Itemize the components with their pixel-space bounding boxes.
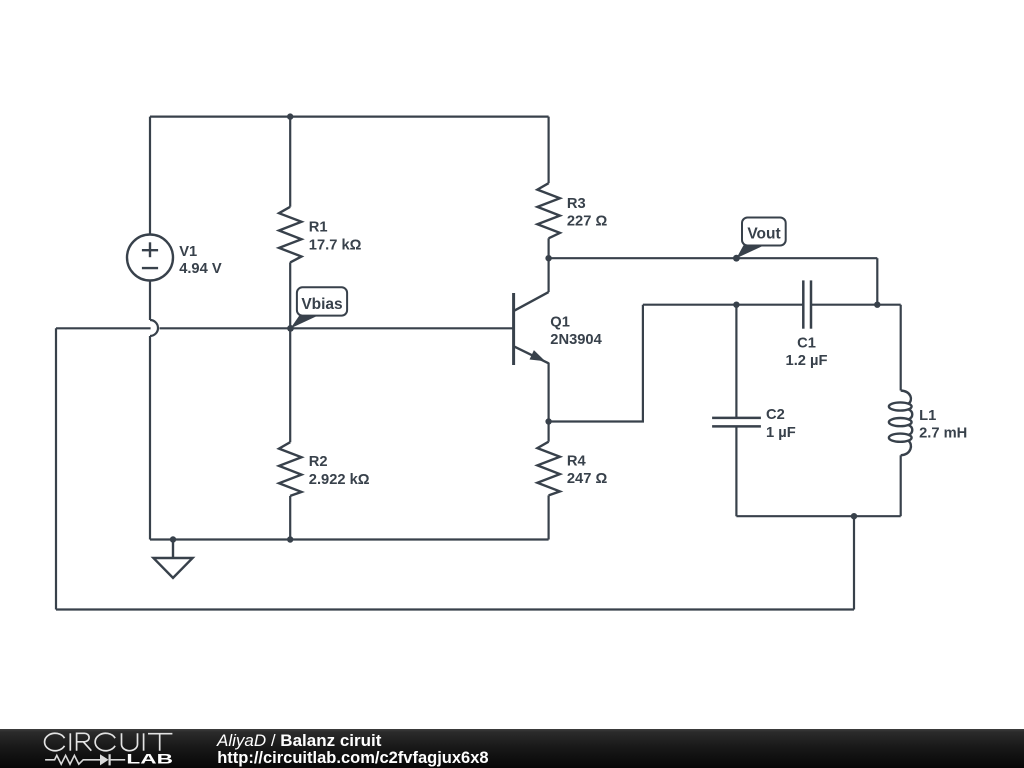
- resistor R1: [279, 207, 302, 263]
- capacitor C1: [803, 280, 811, 328]
- svg-text:R1: R1: [309, 220, 328, 236]
- svg-text:R2: R2: [309, 454, 328, 470]
- wire Q1 collector lead: [547, 258, 549, 292]
- inductor L1: [889, 391, 912, 456]
- svg-text:C2: C2: [766, 407, 785, 423]
- wire C2 top lead: [735, 305, 737, 418]
- wire feedback right riser: [853, 516, 855, 609]
- node R2 / bottom rail: [287, 536, 293, 542]
- wire R1 top lead: [289, 117, 291, 207]
- node ground tee: [170, 536, 176, 542]
- svg-text:1 µF: 1 µF: [766, 425, 796, 441]
- wire Vout rail drop to tank: [876, 258, 878, 305]
- wire R1 bottom lead: [289, 262, 291, 328]
- svg-text:2.7 mH: 2.7 mH: [919, 425, 967, 441]
- wire R3 top lead: [547, 117, 549, 184]
- svg-text:LAB: LAB: [126, 751, 173, 767]
- svg-text:1.2 µF: 1.2 µF: [786, 353, 828, 369]
- resistor R2: [279, 442, 302, 496]
- net label Vbias: [291, 287, 348, 328]
- svg-text:Vbias: Vbias: [301, 296, 342, 313]
- node emitter junction: [545, 418, 551, 424]
- node collector / Vout: [545, 255, 551, 261]
- capacitor C2: [712, 418, 761, 427]
- svg-text:4.94 V: 4.94 V: [179, 261, 222, 277]
- transistor Q1: [512, 293, 515, 365]
- svg-text:227 Ω: 227 Ω: [567, 214, 608, 230]
- wire tank loop top right segment: [811, 304, 901, 306]
- node Vout drop / tank top: [874, 302, 880, 308]
- svg-text:2N3904: 2N3904: [550, 332, 602, 348]
- logo diode symbol: [110, 759, 125, 761]
- wire tank loop right below L1: [900, 455, 902, 516]
- wire R4 top lead: [547, 422, 549, 442]
- wire tank loop top left segment: [643, 304, 803, 306]
- wire feedback left vertical: [55, 328, 57, 609]
- svg-text:R4: R4: [567, 453, 587, 469]
- resistor R3: [537, 183, 560, 238]
- wire top rail: [150, 115, 549, 117]
- svg-text:2.922 kΩ: 2.922 kΩ: [309, 472, 370, 488]
- node top rail / R1: [287, 113, 293, 119]
- wire Q1 emitter lead: [547, 363, 549, 422]
- wire emitter to tank riser: [549, 305, 643, 422]
- logo word CIRCUIT (drawn thin geometric glyphs): [45, 734, 173, 751]
- wire V1 bottom lead: [149, 281, 151, 321]
- footer url: [217, 750, 488, 767]
- wire Vbias rail left of hop: [56, 327, 151, 329]
- node tank bottom tee: [851, 513, 857, 519]
- wire C2 bottom lead: [735, 426, 737, 516]
- wire R2 bottom lead: [289, 496, 291, 540]
- wire Vbias rail to Q1 base: [160, 327, 514, 329]
- svg-text:17.7 kΩ: 17.7 kΩ: [309, 237, 362, 253]
- wire R4 bottom lead: [547, 495, 549, 539]
- svg-text:V1: V1: [179, 244, 197, 260]
- footer author / title: [217, 732, 381, 749]
- voltage source V1: [127, 235, 173, 281]
- wire Vout rail: [549, 257, 878, 259]
- logo resistor symbol: [45, 756, 125, 765]
- wire R2 top lead: [289, 328, 291, 442]
- wire tank loop bottom: [736, 515, 900, 517]
- wire bottom rail: [150, 538, 549, 540]
- resistor R4: [537, 442, 560, 496]
- wire tank loop right above L1: [900, 305, 902, 391]
- svg-text:L1: L1: [919, 408, 936, 424]
- node Vbias junction: [287, 325, 294, 332]
- wire V1 top lead: [149, 117, 151, 235]
- footer bar: [0, 729, 1024, 768]
- node C2 branch tee: [733, 302, 739, 308]
- node Vout label anchor: [733, 255, 740, 262]
- wire hop over Vbias rail: [150, 320, 158, 336]
- svg-text:C1: C1: [797, 335, 816, 351]
- wire R3 bottom lead: [547, 238, 549, 258]
- ground: [153, 540, 192, 578]
- svg-text:Vout: Vout: [747, 226, 780, 243]
- wire feedback bottom horizontal: [56, 608, 854, 610]
- svg-text:Q1: Q1: [550, 315, 570, 331]
- net label Vout: [736, 218, 785, 259]
- svg-text:R3: R3: [567, 196, 586, 212]
- wire V1 lead to bottom rail: [149, 336, 151, 540]
- svg-text:247 Ω: 247 Ω: [567, 471, 608, 487]
